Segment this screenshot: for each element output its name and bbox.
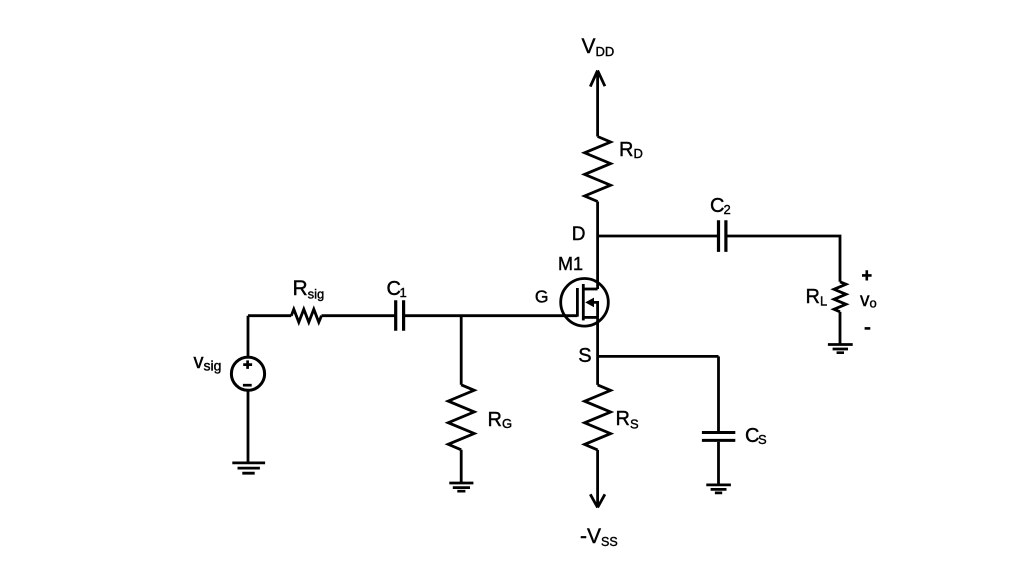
- svg-text:RD: RD: [619, 139, 643, 161]
- capacitor C2: [719, 220, 726, 252]
- wire node S to CS: [598, 355, 719, 358]
- wire C1 to gate of M1: [404, 314, 578, 317]
- ground under vsig: [232, 463, 265, 473]
- svg-text:VDD: VDD: [582, 35, 615, 59]
- wire C2 to RL corner: [726, 236, 840, 282]
- wire RG branch: [460, 316, 463, 385]
- svg-text:RL: RL: [806, 286, 828, 309]
- svg-text:C1: C1: [387, 278, 407, 300]
- wire vsig corner to Rsig: [248, 316, 291, 358]
- source vsig minus: [243, 384, 252, 387]
- resistor RD: [585, 137, 611, 202]
- resistor RG: [448, 385, 474, 450]
- source vsig circle: [231, 357, 264, 390]
- transistor M1 body arrow line: [592, 302, 598, 317]
- transistor M1 channel bar: [582, 284, 585, 320]
- power arrow to -VSS: [590, 450, 605, 508]
- svg-text:C2: C2: [710, 195, 731, 217]
- svg-text:D: D: [572, 224, 586, 245]
- ground under RG: [449, 483, 473, 491]
- transistor M1 drain lead: [583, 288, 597, 291]
- svg-text:Rsig: Rsig: [293, 277, 325, 302]
- svg-text:vsig: vsig: [194, 351, 222, 374]
- wire RG to ground: [460, 450, 463, 483]
- resistor RS: [585, 385, 611, 450]
- plus sign (output polarity): [862, 270, 872, 280]
- svg-text:CS: CS: [745, 425, 767, 447]
- svg-text:RG: RG: [488, 409, 513, 431]
- svg-text:G: G: [535, 286, 549, 306]
- svg-text:S: S: [578, 345, 591, 367]
- transistor M1 body circle: [561, 279, 609, 327]
- wire CS to ground: [717, 442, 720, 484]
- svg-text:RS: RS: [616, 408, 639, 432]
- transistor M1 gate bar: [576, 288, 579, 317]
- capacitor CS: [702, 433, 735, 441]
- wire RL to ground: [839, 312, 842, 344]
- ground under CS: [706, 485, 731, 493]
- wire Rsig to C1: [322, 314, 396, 317]
- svg-text:vo: vo: [860, 290, 877, 311]
- wire vsig to ground: [247, 390, 250, 461]
- svg-text:M1: M1: [558, 254, 583, 274]
- wire CS branch vertical: [717, 356, 720, 431]
- svg-text:-VSS: -VSS: [580, 525, 618, 549]
- wire RD bottom through node D to MOSFET drain: [596, 202, 599, 290]
- wire node D to C2: [598, 235, 719, 238]
- wire source to node S and RS: [596, 317, 599, 385]
- minus sign (output polarity): [865, 327, 871, 330]
- resistor Rsig: [291, 309, 321, 322]
- source vsig plus: [243, 360, 252, 369]
- power arrow to VDD: [590, 71, 605, 137]
- ground under RL: [828, 345, 853, 353]
- transistor M1 source lead: [583, 316, 597, 319]
- capacitor C1: [396, 300, 404, 330]
- resistor RL: [834, 282, 846, 312]
- transistor M1 body arrowhead: [585, 298, 594, 308]
